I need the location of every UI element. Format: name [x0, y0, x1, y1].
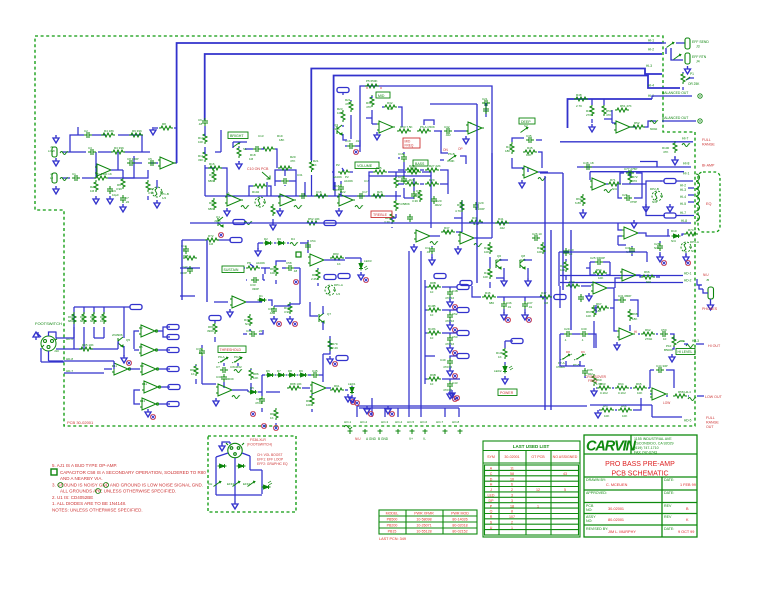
svg-text:C4B: C4B	[452, 289, 458, 293]
svg-text:330P: 330P	[252, 287, 259, 291]
svg-text:C25 3300P: C25 3300P	[590, 256, 605, 260]
svg-text:68K: 68K	[208, 179, 213, 183]
resistor R62	[641, 332, 655, 336]
svg-text:C35: C35	[526, 134, 532, 138]
ground J5	[708, 302, 714, 310]
wire bus	[205, 126, 401, 196]
HO labels	[344, 420, 459, 424]
cap C7A	[411, 191, 417, 199]
svg-text:10K: 10K	[253, 376, 258, 380]
wire low driver	[596, 370, 674, 396]
ground	[120, 204, 126, 212]
svg-text:47K: 47K	[366, 105, 371, 109]
svg-text:80-02018: 80-02018	[452, 524, 467, 528]
resistor R29	[425, 182, 439, 186]
wire q6q8	[490, 243, 566, 288]
svg-text:3.3K: 3.3K	[412, 199, 418, 203]
svg-text:DP: DP	[489, 499, 495, 503]
svg-text:D2: D2	[264, 237, 268, 241]
wire	[430, 200, 462, 236]
svg-text:LED2: LED2	[494, 369, 502, 373]
balanced out circle 1	[698, 94, 702, 98]
capacitor C9 vert	[107, 186, 113, 194]
resistor R25	[405, 168, 419, 172]
svg-text:PCB 30-02001: PCB 30-02001	[67, 420, 94, 425]
svg-text:HI-1: HI-1	[648, 39, 654, 43]
svg-text:1K: 1K	[270, 416, 274, 420]
svg-text:.01: .01	[528, 305, 533, 309]
svg-text:J4: J4	[696, 60, 700, 64]
svg-text:FOOTSWITCH: FOOTSWITCH	[35, 321, 62, 326]
svg-text:D: D	[490, 477, 493, 481]
svg-text:2.7K: 2.7K	[576, 104, 582, 108]
svg-text:R47: R47	[541, 291, 547, 295]
resistor R27	[425, 168, 439, 172]
pot DP3-A	[681, 242, 692, 252]
svg-text:10K: 10K	[622, 414, 627, 418]
resistor R8B + cap C4B + tag row1	[427, 285, 441, 289]
switches PT-A PT-B	[563, 354, 571, 360]
svg-text:4.7K: 4.7K	[455, 209, 461, 213]
ground U1F	[145, 409, 151, 417]
wire full range out	[590, 405, 682, 417]
svg-text:10K: 10K	[526, 153, 531, 157]
svg-text:FULL: FULL	[702, 138, 711, 142]
svg-text:N/U: N/U	[652, 200, 657, 204]
svg-text:Q7: Q7	[327, 312, 331, 316]
wire to pot	[656, 334, 674, 349]
wire p3p4	[341, 181, 396, 228]
svg-text:Q5: Q5	[126, 338, 130, 342]
border outline	[35, 36, 695, 426]
svg-text:N/U: N/U	[245, 322, 250, 326]
svg-text:D7: D7	[277, 369, 281, 373]
wire	[302, 336, 352, 412]
svg-text:.01: .01	[182, 248, 187, 252]
svg-text:P4 B80K: P4 B80K	[398, 202, 410, 206]
svg-text:80-14026: 80-14026	[452, 518, 467, 522]
row2 R10B C52	[427, 308, 441, 312]
wire loop C	[311, 69, 662, 161]
svg-text:C77 275P: C77 275P	[624, 167, 637, 171]
svg-text:HO-4: HO-4	[395, 420, 402, 424]
ground bright	[236, 161, 242, 169]
resistor R67	[595, 306, 609, 310]
svg-text:5. AJ1 IS A BUD TYPE OP-AMP.: 5. AJ1 IS A BUD TYPE OP-AMP.	[52, 463, 117, 468]
wire threshold	[196, 345, 251, 390]
wire R8	[154, 127, 177, 129]
svg-text:8: 8	[511, 510, 513, 514]
svg-text:C19: C19	[398, 175, 404, 179]
wire long verticals	[182, 104, 571, 410]
arrow top row	[53, 135, 59, 143]
ground R100	[672, 157, 678, 165]
svg-text:R9B: R9B	[430, 373, 436, 377]
svg-text:PHONES: PHONES	[702, 307, 718, 311]
svg-text:FAX 747-0743: FAX 747-0743	[634, 451, 657, 455]
svg-text:EFF1: EFF LOOP: EFF1: EFF LOOP	[257, 458, 284, 462]
resistor R57b vert	[592, 305, 596, 317]
buffer U1C	[112, 363, 130, 375]
wire geq	[366, 96, 402, 127]
svg-text:C26: C26	[622, 193, 628, 197]
MID label box	[376, 92, 390, 98]
cap C48	[584, 164, 592, 170]
resistor R28	[405, 182, 419, 186]
buffer U1D	[140, 363, 158, 375]
cap C19	[401, 176, 407, 184]
svg-text:C49: C49	[440, 358, 446, 362]
wire HI-0	[568, 99, 653, 128]
svg-text:DATE:: DATE:	[664, 491, 674, 495]
svg-text:J5: J5	[706, 278, 710, 282]
svg-text:HO-1: HO-1	[344, 420, 351, 424]
svg-text:1/2: 1/2	[336, 292, 341, 296]
svg-text:R52 10K: R52 10K	[308, 217, 320, 221]
svg-text:1K: 1K	[313, 163, 317, 167]
svg-text:HI-3: HI-3	[680, 188, 686, 192]
svg-text:10K: 10K	[637, 391, 642, 395]
cap C20 vert	[431, 196, 437, 204]
wire V+ rail	[425, 280, 435, 384]
svg-text:680Ω: 680Ω	[90, 319, 97, 323]
tag on bus	[324, 221, 336, 226]
svg-text:HD-1: HD-1	[684, 272, 692, 276]
cap C28 vert	[657, 243, 663, 251]
ground bottom	[232, 501, 238, 509]
jack J1	[52, 173, 57, 183]
svg-text:AND A NEARBY VIA.: AND A NEARBY VIA.	[60, 476, 103, 481]
svg-text:470/16: 470/16	[445, 342, 455, 346]
svg-text:107: 107	[509, 515, 515, 519]
svg-text:HI OUT: HI OUT	[708, 344, 721, 348]
svg-text:LED: LED	[488, 494, 495, 498]
resistor R80 vert	[274, 264, 278, 276]
SUSTAIN label	[222, 266, 244, 273]
svg-text:3.9K: 3.9K	[284, 310, 290, 314]
buffer U1E	[142, 381, 160, 393]
cap C30 vert	[473, 202, 479, 210]
jack J2	[52, 147, 57, 157]
svg-text:18K: 18K	[596, 309, 601, 313]
svg-text:BASS: BASS	[415, 162, 425, 166]
transistor Q3	[337, 125, 342, 135]
wire d10	[660, 229, 686, 256]
pins and arrows	[345, 394, 351, 402]
resistor R84 vert	[194, 364, 198, 376]
resistor R32	[383, 105, 397, 109]
svg-text:C17: C17	[362, 190, 368, 194]
svg-text:R62: R62	[645, 328, 651, 332]
svg-text:HO-5: HO-5	[407, 420, 414, 424]
svg-text:C38: C38	[246, 329, 252, 333]
resistor R87 vert	[274, 408, 278, 420]
squiggle	[650, 121, 658, 124]
svg-text:P1: P1	[690, 72, 694, 76]
op-amp AU7b	[310, 382, 328, 394]
switch EFF2	[248, 481, 256, 487]
svg-text:HI-2: HI-2	[680, 184, 686, 188]
op-amp AU6	[522, 166, 540, 178]
svg-text:N/U: N/U	[654, 246, 659, 250]
cap C38	[249, 331, 257, 337]
svg-text:REV: REV	[664, 515, 672, 519]
svg-text:80-02001: 80-02001	[608, 518, 624, 522]
diode D12	[237, 464, 246, 468]
ground + pin	[121, 355, 127, 363]
svg-text:NOTES: UNLESS OTHERWISE SPECI: NOTES: UNLESS OTHERWISE SPECIFIED.	[52, 508, 143, 513]
svg-text:1. ALL DIODES ARE TO BE 1N414: 1. ALL DIODES ARE TO BE 1N4148.	[52, 501, 126, 506]
svg-text:DATE:: DATE:	[664, 478, 674, 482]
wire balanced1	[652, 96, 700, 99]
resistor R58	[673, 394, 687, 398]
R12 R13 left verticals	[212, 170, 216, 182]
svg-text:LAST PCN: 349: LAST PCN: 349	[379, 537, 406, 541]
op-amp AU8 crossover	[591, 282, 609, 294]
svg-text:P5 650K: P5 650K	[366, 79, 378, 83]
wire limiter out	[246, 268, 323, 330]
svg-text:C45: C45	[312, 369, 318, 373]
svg-text:9 OCT 99: 9 OCT 99	[678, 530, 694, 534]
svg-text:270Ω: 270Ω	[645, 337, 653, 341]
cap C10	[183, 246, 189, 254]
ground	[591, 388, 597, 396]
svg-text:R58 H2-4: R58 H2-4	[678, 390, 691, 394]
svg-text:10K: 10K	[483, 275, 488, 279]
ground	[519, 180, 525, 188]
wire diode row	[232, 375, 323, 412]
tags	[460, 281, 472, 286]
squiggles	[241, 206, 249, 209]
svg-text:APPROVED:: APPROVED:	[586, 491, 607, 495]
svg-text:RANGE: RANGE	[706, 421, 719, 425]
svg-text:R68: R68	[632, 312, 638, 316]
svg-text:R52: R52	[634, 121, 640, 125]
resistor R??	[205, 238, 219, 242]
resistor R21 vert	[310, 160, 314, 172]
LED D13	[262, 485, 271, 489]
op-amp phones driver	[620, 269, 638, 281]
svg-text:470/16: 470/16	[445, 319, 455, 323]
svg-text:EFF SEND: EFF SEND	[692, 40, 709, 44]
below-border stubs	[344, 426, 463, 435]
grounds	[643, 204, 649, 212]
tag P+ left	[337, 88, 349, 93]
svg-text:10K: 10K	[537, 250, 542, 254]
resistor R49 vert	[590, 104, 594, 116]
svg-text:BALANCED OUT: BALANCED OUT	[662, 91, 688, 95]
svg-text:R88 10K: R88 10K	[290, 382, 302, 386]
ground	[374, 132, 380, 140]
op-amp U1A	[95, 164, 113, 176]
svg-text:R74: R74	[688, 228, 694, 232]
svg-text:DATE:: DATE:	[664, 527, 674, 531]
svg-text:HI LEVEL: HI LEVEL	[678, 350, 693, 354]
diodes D6-D9 row	[266, 373, 275, 377]
svg-text:PB15: PB15	[388, 530, 397, 534]
wire biamp cluster	[590, 172, 646, 184]
THRESHOLD red box	[218, 346, 246, 353]
MID FREQ red label	[403, 138, 420, 148]
svg-text:PWR XFMR: PWR XFMR	[414, 512, 434, 516]
svg-text:J: J	[490, 488, 492, 492]
svg-text:FREQ: FREQ	[588, 379, 598, 383]
switch CH	[214, 481, 222, 487]
DEEP stage: resistor R44	[510, 142, 514, 154]
resistors R63 R64 R65 row	[597, 386, 611, 390]
wire to AU1	[434, 103, 486, 153]
svg-text:C16: C16	[316, 190, 322, 194]
switch EFF1	[233, 481, 241, 487]
resistor R68 vert	[628, 309, 632, 321]
svg-text:.22: .22	[258, 329, 263, 333]
svg-text:.042: .042	[499, 226, 505, 230]
svg-text:3.9K: 3.9K	[148, 191, 154, 195]
svg-text:12: 12	[536, 488, 540, 492]
svg-text:EQ: EQ	[706, 202, 712, 206]
cap C50	[660, 331, 668, 337]
svg-text:J3: J3	[696, 45, 700, 49]
svg-text:1155 INDUSTRIAL AVE: 1155 INDUSTRIAL AVE	[634, 437, 672, 441]
transistor Q8	[520, 259, 525, 269]
pin on border near footswitch box	[261, 423, 266, 428]
wire cross mid	[560, 305, 596, 357]
svg-text:470/16: 470/16	[445, 296, 455, 300]
cap C58	[286, 265, 294, 271]
svg-text:S1: S1	[243, 147, 247, 151]
svg-text:30-02001: 30-02001	[608, 507, 624, 511]
resistor R2 vert	[94, 180, 98, 192]
svg-text:A100K: A100K	[344, 179, 353, 183]
diodes D2 D3 D4 row	[264, 241, 273, 245]
cap C34 vert	[271, 306, 277, 314]
svg-text:LOW: LOW	[48, 149, 55, 153]
svg-text:2. U1 IS: CD4052BE: 2. U1 IS: CD4052BE	[52, 495, 93, 500]
svg-text:2N3906: 2N3906	[112, 333, 123, 337]
title block frame	[584, 435, 697, 537]
resistor R100 vert	[673, 141, 677, 153]
svg-text:HI-3: HI-3	[646, 64, 652, 68]
svg-text:LAST USED LIST: LAST USED LIST	[513, 444, 550, 449]
wire fb1	[111, 135, 123, 170]
svg-text:VOLUME: VOLUME	[357, 164, 373, 168]
svg-text:1K: 1K	[337, 262, 341, 266]
svg-text:C?: C?	[216, 365, 220, 369]
transistor Q6	[496, 259, 501, 269]
svg-text:HI-7: HI-7	[680, 211, 686, 215]
svg-text:10K: 10K	[270, 271, 275, 275]
svg-text:PCB SCHEMATIC: PCB SCHEMATIC	[611, 471, 668, 478]
svg-text:N/U: N/U	[691, 249, 696, 253]
resistor R51 fb	[615, 108, 629, 112]
resistor vert	[288, 302, 292, 314]
resistor R74	[684, 232, 698, 236]
svg-text:.01: .01	[355, 139, 360, 143]
resistor R43 vert	[564, 260, 568, 272]
svg-text:6: 6	[511, 483, 513, 487]
op-amp balanced	[614, 121, 632, 133]
cap C54	[305, 242, 311, 250]
svg-text:.022: .022	[445, 133, 451, 137]
svg-text:R66: R66	[644, 270, 650, 274]
output tags	[167, 325, 179, 330]
svg-text:18: 18	[510, 504, 514, 508]
resistor R88	[287, 386, 301, 390]
svg-text:SYM: SYM	[487, 455, 495, 459]
svg-text:1M: 1M	[544, 301, 549, 305]
note 4 green square	[51, 469, 57, 475]
jack J4 EFF RTN	[685, 53, 690, 64]
resistor R10E vert	[503, 347, 507, 359]
svg-text:R48: R48	[576, 93, 582, 97]
svg-text:3. GROUND IS NOISY GND AND: 3. GROUND IS NOISY GND AND GROUND IS LOW…	[52, 483, 203, 488]
svg-text:R8: R8	[162, 122, 166, 126]
svg-text:C21: C21	[482, 97, 488, 101]
svg-text:C30: C30	[216, 375, 222, 379]
svg-text:.18: .18	[293, 269, 298, 273]
svg-text:47K: 47K	[606, 113, 611, 117]
svg-text:CH: CH	[208, 482, 212, 486]
wire HD-1 HD-2 lines	[560, 276, 701, 286]
resistor R23 vert	[341, 110, 345, 122]
svg-text:10: 10	[430, 336, 434, 340]
resistor R42 vert	[541, 242, 545, 254]
arrow	[33, 332, 39, 340]
svg-text:PWR MOD: PWR MOD	[451, 512, 469, 516]
svg-text:CAPACITOR C58 IS A SECONDARY O: CAPACITOR C58 IS A SECONDARY OPERATION, …	[60, 470, 206, 475]
svg-text:PB500: PB500	[387, 518, 398, 522]
svg-text:OR 25K: OR 25K	[688, 82, 700, 86]
svg-text:4700: 4700	[255, 401, 262, 405]
svg-text:R1 3300 1K: R1 3300 1K	[96, 172, 112, 176]
labels	[398, 124, 533, 234]
svg-text:HI: HI	[634, 330, 637, 334]
wire deep out	[538, 171, 548, 173]
svg-text:R64: R64	[618, 382, 624, 386]
wire xlr	[38, 332, 64, 362]
svg-text:D9: D9	[581, 350, 585, 354]
tag P+	[130, 305, 142, 310]
ground R8	[150, 127, 156, 135]
svg-text:C52: C52	[452, 312, 458, 316]
resistor R10 vert	[203, 132, 207, 144]
ground	[455, 246, 461, 254]
resistor R54	[593, 271, 607, 275]
resistor R36 vert	[460, 200, 464, 212]
svg-text:80-02152: 80-02152	[452, 530, 467, 534]
svg-text:13: 13	[142, 399, 146, 403]
cap C35	[526, 137, 534, 143]
svg-text:D4: D4	[291, 237, 295, 241]
pot DP1-B	[152, 187, 163, 197]
resistor R78 vert	[248, 314, 252, 326]
EQ connector arcs	[696, 174, 700, 221]
balanced out circle 2	[698, 119, 702, 123]
svg-text:.0039: .0039	[226, 377, 234, 381]
XLR input jack	[41, 336, 57, 351]
pot P3	[394, 176, 398, 188]
op-amp AU3	[337, 194, 355, 206]
BRIGHT label	[228, 132, 248, 139]
op-amp AU6b	[216, 384, 234, 396]
svg-text:680Ω: 680Ω	[80, 319, 87, 323]
wire loop A	[177, 43, 662, 163]
svg-text:P6-B: P6-B	[448, 152, 455, 156]
resistor R1	[94, 176, 108, 180]
wire deep	[512, 138, 542, 172]
grounds	[271, 316, 277, 324]
labels	[48, 122, 169, 204]
